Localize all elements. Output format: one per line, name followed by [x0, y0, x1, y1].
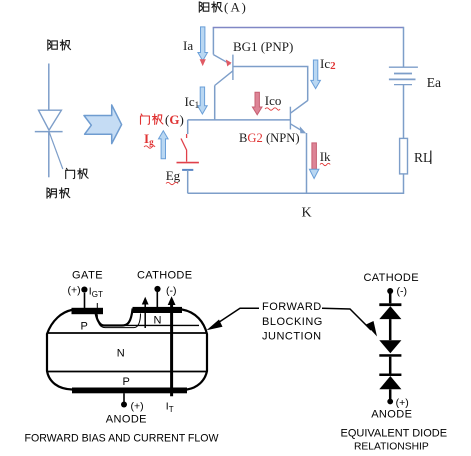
anode lead [123, 393, 125, 402]
svg-text:(+): (+) [131, 401, 144, 413]
wire BG2 cathode down [306, 133, 308, 193]
wire gate node down [187, 120, 189, 134]
wire thyristor cathode lead [48, 132, 50, 178]
svg-text:FORWARD BIAS AND CURRENT FLOW: FORWARD BIAS AND CURRENT FLOW [25, 433, 219, 445]
svg-text:CATHODE: CATHODE [137, 270, 192, 282]
resistor RL body [400, 138, 408, 174]
cathode terminal dot [154, 286, 160, 292]
cathode lead [156, 292, 158, 308]
switch (red) [181, 134, 187, 162]
svg-text:P: P [123, 376, 130, 388]
svg-text:K: K [302, 206, 312, 221]
svg-text:Ik: Ik [320, 149, 331, 164]
gate terminal dot [81, 287, 87, 293]
lead D3 to bottom dot [389, 389, 392, 399]
svg-text:ANODE: ANODE [371, 409, 412, 421]
red squiggle under Ik [320, 163, 330, 165]
red squiggle under Eg [166, 182, 178, 184]
current arrow Ik blue head [309, 169, 319, 178]
current arrow Ico (pink, down) [252, 92, 262, 115]
svg-text:BG2 (NPN): BG2 (NPN) [239, 131, 300, 145]
wire thyristor gate lead [49, 132, 63, 169]
label 阳极（A）(anode of circuit) [199, 0, 246, 15]
svg-text:(+): (+) [396, 397, 409, 409]
wire BG2 base [188, 119, 291, 121]
diode D1 (up) [379, 303, 401, 319]
red squiggle under Ico [265, 108, 280, 110]
diode D2 (down, blocking) [379, 340, 401, 357]
lead D2 to D3 [389, 357, 392, 374]
svg-text:(-): (-) [166, 285, 177, 297]
svg-text:(A): (A) [224, 0, 246, 15]
wire bottom [188, 192, 404, 194]
junction line J1 [47, 371, 207, 373]
transistor BG1 emitter arrowhead (red) [226, 60, 232, 67]
svg-text:N: N [117, 348, 125, 360]
diode D3 (up) [379, 374, 401, 390]
current arrow Ia (blue, down) [198, 27, 208, 61]
N-emitter bottom line [100, 324, 199, 326]
block arrow (transform symbol) [84, 105, 122, 144]
red squiggle under Ig [144, 146, 155, 148]
svg-text:GATE: GATE [72, 270, 103, 282]
svg-text:Eg: Eg [166, 168, 181, 183]
lead D1 to D2 [389, 319, 392, 340]
transistor BG2 emitter arrowhead (blue) [300, 126, 306, 133]
wire top [213, 27, 404, 29]
svg-text:BLOCKING: BLOCKING [262, 316, 323, 328]
battery Ea plates [389, 67, 418, 84]
label FORWARD BLOCKING JUNCTION [262, 301, 323, 343]
label 门极（G） [141, 112, 184, 127]
svg-text:(G): (G) [165, 112, 184, 127]
pointer line to middle diode [322, 308, 377, 336]
current arrow Ic2 (blue, down) [311, 60, 321, 89]
svg-text:(-): (-) [397, 286, 408, 298]
svg-text:Ia: Ia [183, 38, 193, 53]
svg-text:RL: RL [414, 150, 431, 165]
wire anode vertical [212, 28, 214, 55]
battery Eg negative plate (blue) [182, 169, 193, 171]
current arrow Ik (pink shaft) [312, 143, 317, 169]
svg-text:(+): (+) [68, 285, 81, 297]
gate current path (thin curve) [97, 303, 140, 328]
svg-text:JUNCTION: JUNCTION [262, 331, 322, 343]
current arrow Ic1 (blue, down) [198, 87, 208, 114]
device body outline [47, 310, 207, 390]
svg-text:P: P [81, 321, 88, 333]
svg-text:ANODE: ANODE [106, 414, 147, 426]
svg-text:N: N [154, 315, 162, 327]
svg-text:Ea: Ea [427, 75, 441, 90]
cathode current arrow (up) [142, 297, 149, 328]
thyristor triangle [39, 110, 62, 130]
current arrow IT (thick, up) [168, 296, 176, 396]
current arrow Ia red tip [200, 59, 206, 66]
label cathode 阴极 (thyristor) [47, 188, 70, 198]
gate lead [84, 293, 86, 309]
wire BG1 base to BG2 collector [233, 67, 308, 101]
lead dot to D1 [389, 293, 392, 303]
diode stack bottom dot [387, 399, 393, 405]
label gate 门极 (thyristor) [66, 168, 88, 179]
label anode 阳极 (top-left thyristor) [48, 40, 71, 50]
wire BG1 collector down [214, 86, 216, 121]
junction line J2 (blocking) [47, 332, 207, 334]
text cursor after RL [430, 151, 432, 165]
anode metal bar [72, 388, 187, 394]
current arrow Ig (blue, up) [159, 131, 169, 159]
wire right side down to battery [403, 27, 405, 67]
svg-text:RELATIONSHIP: RELATIONSHIP [354, 442, 429, 453]
svg-text:CATHODE: CATHODE [364, 272, 419, 284]
wire thyristor anode lead [48, 64, 50, 111]
diode stack top dot [387, 288, 393, 294]
battery Eg positive plate (red) [177, 162, 199, 164]
transistor BG2 NPN [290, 101, 307, 132]
svg-text:EQUIVALENT DIODE: EQUIVALENT DIODE [341, 428, 448, 440]
wire battery to resistor [403, 85, 405, 139]
pointer line to device junction [207, 308, 260, 330]
transistor BG1 PNP [213, 55, 233, 86]
anode terminal dot [121, 402, 127, 408]
cathode metal bar [133, 307, 183, 313]
wire resistor to bottom [403, 174, 405, 194]
svg-text:FORWARD: FORWARD [262, 301, 322, 313]
svg-text:Ico: Ico [265, 93, 282, 108]
wire Eg down to bottom [187, 170, 189, 193]
thyristor cathode bar [35, 131, 63, 133]
gate metal bar [72, 308, 104, 314]
svg-text:BG1 (PNP): BG1 (PNP) [233, 39, 293, 54]
